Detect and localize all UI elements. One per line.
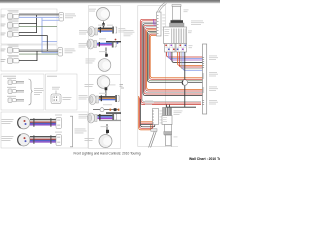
component K2	[153, 109, 163, 125]
loop2 black hook	[141, 99, 155, 127]
loop2 orange hook	[139, 96, 151, 130]
label left of bend	[124, 30, 135, 36]
brace P3	[29, 79, 33, 105]
loop2 red hook	[140, 98, 153, 129]
ribbon row1	[30, 115, 62, 129]
svg-text:Wall Chart : 2010 Touring: Wall Chart : 2010 Touring	[189, 157, 220, 161]
round connector row1	[2, 117, 30, 129]
label K2	[145, 101, 154, 105]
ignition stem box	[166, 135, 172, 146]
purple stub	[154, 19, 156, 26]
wire blue short	[42, 19, 59, 21]
connector J8	[7, 96, 24, 103]
pin grid A	[165, 44, 176, 53]
gutter connector B	[58, 48, 76, 57]
label P3	[34, 88, 44, 95]
ignition label	[174, 111, 183, 115]
wire gray k6	[145, 27, 203, 93]
right-middle panel border	[138, 6, 166, 147]
svg-text:Front Lighting and Hand Contro: Front Lighting and Hand Controls: 2010 T…	[73, 152, 140, 156]
lamp L4	[85, 135, 113, 148]
K2 stub red	[141, 122, 153, 124]
switch label right	[188, 21, 204, 34]
gutter connector bits	[120, 85, 125, 89]
wire green J4	[19, 53, 58, 55]
socket row A	[88, 25, 126, 37]
wire black J2	[19, 23, 37, 25]
bracket P5	[70, 116, 73, 147]
K2 stub black	[141, 124, 153, 126]
ignition collar band	[164, 132, 172, 135]
ignition switch hatch	[163, 108, 172, 116]
wire green k10	[148, 33, 202, 81]
switch lever cap	[172, 5, 181, 7]
pedestal under K2	[151, 129, 157, 131]
panel P4 title	[47, 76, 57, 77]
lamp L2 stem	[105, 48, 107, 58]
lamp L3	[85, 76, 116, 96]
switch gray collar	[170, 23, 185, 27]
connector J4	[1, 45, 20, 54]
middle panel divider	[89, 74, 121, 76]
handlebar bundle wires	[167, 52, 203, 57]
grid pin labels	[189, 44, 193, 47]
wire orange k12	[150, 35, 202, 77]
panel P4 border	[46, 74, 78, 110]
panel P3 border	[1, 74, 44, 110]
connector J3	[1, 29, 20, 38]
label P5	[75, 129, 87, 134]
module U1	[51, 87, 72, 104]
main harness labels	[209, 56, 218, 105]
long black vertical	[184, 52, 186, 107]
ignition lower box	[165, 125, 172, 136]
row B left label	[79, 42, 87, 45]
connector J1	[1, 10, 20, 19]
connector strip K1	[157, 12, 166, 36]
inline fuse row	[93, 104, 119, 111]
ignition body	[162, 116, 172, 125]
panel P2 border	[1, 45, 57, 71]
connector J2	[1, 20, 20, 29]
middle panel border	[89, 6, 121, 149]
connector J5	[1, 55, 20, 64]
wire black J4	[19, 50, 58, 52]
row A left label	[79, 29, 87, 32]
switch lever label	[184, 10, 189, 13]
socket row B	[87, 38, 121, 49]
wire black J5	[19, 51, 37, 61]
switch lever body	[173, 6, 181, 20]
lamp L1	[89, 8, 110, 28]
wire gray J1	[19, 13, 59, 15]
ignition stem wire	[170, 136, 172, 147]
panel P3 title	[3, 76, 16, 77]
clutch cable	[149, 132, 155, 148]
wire blue lower	[42, 41, 57, 43]
wire red k1	[140, 19, 201, 104]
wire green J2	[19, 26, 57, 28]
connector J6	[7, 78, 24, 85]
main harness connector	[203, 44, 207, 114]
switch housing	[164, 27, 187, 44]
socket row D	[87, 112, 121, 123]
panel P1 border	[1, 9, 57, 44]
gutter connector A	[59, 13, 76, 22]
switch dark band	[171, 20, 184, 23]
socket row C	[89, 93, 119, 105]
wire red k7	[146, 28, 203, 91]
cable to switch diagonal	[158, 3, 166, 12]
wire red k2	[141, 21, 201, 103]
lamp L2	[86, 59, 111, 72]
row C left label	[79, 94, 88, 97]
wire black k9	[148, 31, 203, 82]
wire red k11	[149, 34, 202, 79]
ring component	[182, 80, 188, 86]
wire black J3 lower	[19, 36, 47, 52]
wire red k5	[144, 25, 203, 94]
connector J7	[7, 87, 24, 94]
lamp L4 stem	[106, 124, 108, 134]
round connector row2	[2, 134, 30, 146]
pin grid B	[176, 44, 187, 53]
ribbon row2	[30, 132, 62, 146]
wire blue J1	[19, 16, 59, 18]
wire junction vertical	[36, 15, 38, 33]
K2 stub orange	[141, 121, 153, 123]
wire gray k3	[142, 22, 201, 101]
black wire to ignition	[167, 105, 197, 108]
panel P5 border	[1, 112, 88, 148]
bottom border segment	[166, 146, 179, 148]
wire black J3	[19, 32, 37, 34]
wire black k4	[143, 24, 203, 96]
wire gray J4	[19, 49, 58, 51]
wire blue branch	[42, 17, 58, 52]
row D left label	[79, 113, 88, 116]
wire black J1 to junction	[19, 14, 59, 16]
wire orange k8	[147, 30, 203, 90]
